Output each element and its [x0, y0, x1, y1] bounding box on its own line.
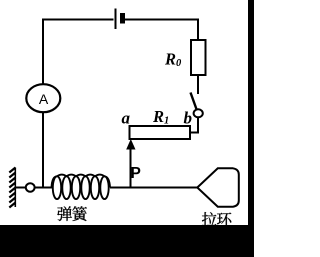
rod hook to spring — [35, 187, 52, 189]
switch S pivot circle — [194, 109, 203, 117]
ammeter A1 circle — [26, 84, 60, 112]
wire left vertical (top) — [42, 19, 44, 86]
wire battery to top-right corner — [125, 19, 199, 21]
rheostat slider wire P — [130, 147, 132, 187]
black bar bottom — [0, 225, 254, 257]
svg-text:P: P — [131, 165, 141, 182]
battery B1 long plate — [115, 9, 117, 30]
resistor R0 body — [191, 40, 206, 75]
wire right vertical down to R0 — [197, 19, 199, 41]
wire left vertical (bottom, ammeter to rod) — [42, 112, 44, 187]
wire switch to rheostat right end — [190, 117, 199, 132]
wire top left horizontal — [43, 19, 114, 21]
wall hatching — [9, 168, 15, 208]
spring coils — [52, 175, 111, 200]
rod wall to hook — [15, 187, 26, 189]
rod spring to pull ring — [110, 187, 198, 189]
label 弹簧 (spring) — [57, 206, 87, 221]
svg-text:a: a — [122, 109, 131, 128]
pull ring body — [197, 168, 239, 206]
battery B1 short thick plate — [120, 13, 125, 24]
black bar right — [248, 0, 254, 257]
svg-text:A: A — [39, 91, 49, 107]
wire R0 to switch — [197, 75, 199, 94]
switch S blade — [191, 93, 197, 110]
label 拉环 (pull ring) — [202, 212, 231, 226]
rheostat slider arrow head — [126, 139, 135, 150]
svg-text:b: b — [184, 109, 193, 128]
hook circle — [26, 183, 35, 191]
rheostat R1 body — [130, 126, 191, 139]
